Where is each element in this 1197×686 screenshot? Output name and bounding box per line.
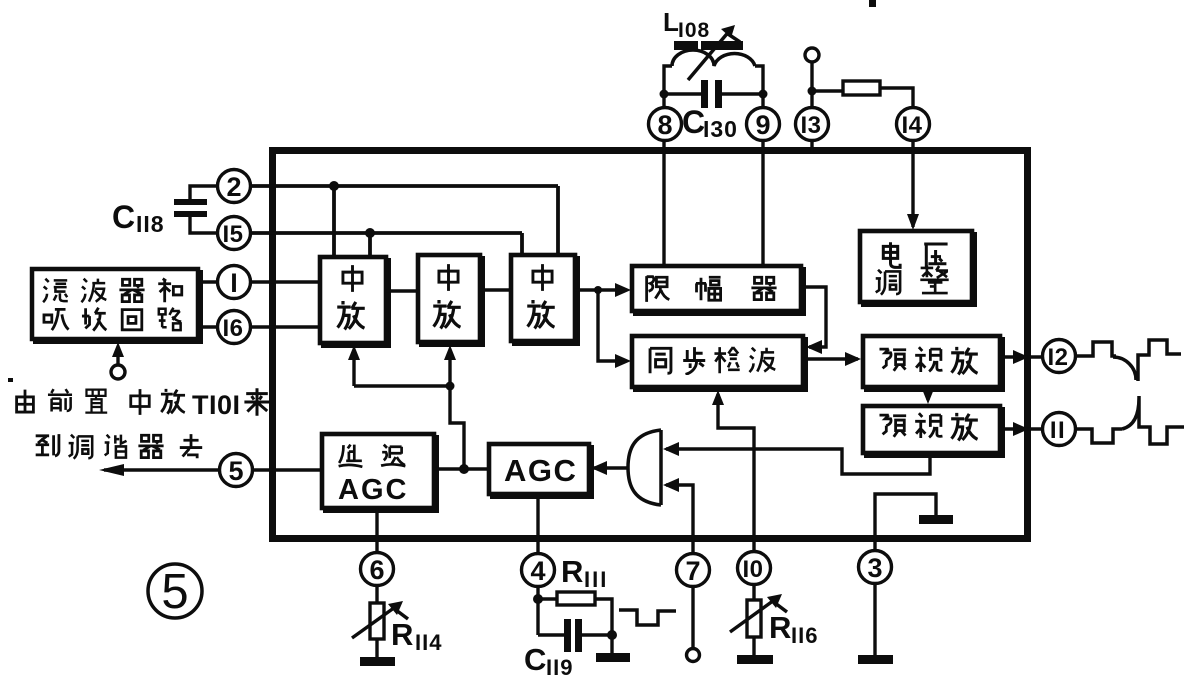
svg-text:C: C (524, 642, 546, 677)
ground below C119 net (596, 653, 630, 662)
block: IF amp 3 (中放) (514, 258, 578, 344)
svg-text:8: 8 (657, 110, 672, 140)
ground below R116 (737, 655, 773, 664)
svg-text:AGC: AGC (338, 474, 408, 506)
wire pin2 bus (250, 186, 558, 257)
pin 15 terminal circle (218, 217, 251, 250)
wire amp2 to amp3 (480, 288, 511, 291)
svg-text:TI0I: TI0I (192, 390, 241, 420)
wire pin 6 to R114 (375, 586, 378, 657)
block: IF amp 2 (中放) (421, 258, 483, 345)
svg-text:II: II (1050, 417, 1066, 444)
pin 4 terminal circle (522, 554, 555, 587)
gate (keyer) shape (628, 430, 661, 505)
svg-text:6: 6 (369, 555, 384, 585)
pin 6 terminal circle (361, 553, 394, 586)
svg-text:9: 9 (755, 110, 770, 140)
resistor R111 body (557, 592, 595, 605)
svg-text:R: R (561, 554, 583, 589)
block: voltage regulator (电压调整) (863, 234, 975, 305)
tank circuit L108/C130 above pins 8,9 (664, 66, 763, 108)
pin 9 terminal circle (747, 108, 780, 141)
svg-text:R: R (391, 617, 413, 652)
wire pin13 stub (810, 140, 813, 152)
resistor between pin 13 and pin 14 (843, 81, 880, 95)
wire pin5 line (104, 468, 322, 471)
svg-text:I4: I4 (901, 112, 922, 139)
pin 12 terminal circle (1043, 340, 1076, 373)
junction node pin 4 net (533, 594, 543, 604)
svg-text:3: 3 (867, 553, 882, 583)
block: IF amp 1 (中放) (323, 260, 389, 346)
adjust arrow through L108 (688, 29, 731, 80)
wire delayed AGC to AGC (434, 467, 489, 470)
wire video amp A to pin12 (1000, 355, 1043, 358)
svg-text:AGC: AGC (504, 453, 577, 488)
node on pin15 bus (365, 228, 375, 238)
pin 8 terminal circle (649, 108, 682, 141)
pin 13 external wire and node (812, 62, 913, 108)
svg-text:I3: I3 (800, 112, 821, 139)
svg-text:III: III (584, 567, 608, 592)
svg-text:2: 2 (226, 172, 241, 202)
pin circles (218, 108, 1076, 587)
wire pin1 (200, 280, 321, 283)
arrow left on pin5 line (99, 464, 124, 476)
junction node at pin 13 (808, 87, 817, 96)
junction node on delayed AGC output (459, 464, 469, 474)
wire pin 3 to ground (873, 584, 876, 655)
block: sync detector (同步检波) (635, 339, 806, 390)
figure number circle 5 (148, 564, 202, 618)
block: filter & absorption (滤波器和吸收回路) (35, 272, 201, 342)
text 由前置中放T101来 (17, 390, 34, 412)
wire gate to AGC (594, 466, 628, 469)
capacitor C119 plates (564, 619, 571, 652)
svg-text:C: C (682, 104, 705, 140)
AGC feedback to amps (354, 352, 464, 469)
svg-text:I08: I08 (678, 19, 710, 42)
junction node pin 9 tank (759, 90, 768, 99)
svg-text:L: L (663, 7, 679, 37)
wire pin 3 internal to ground symbol (875, 494, 936, 553)
block: pre-video amp A (预视放) (866, 339, 1003, 390)
svg-text:5: 5 (161, 565, 188, 619)
block: pre-video amp B (预视放) (866, 409, 1003, 456)
wire gate top input from video amp B (666, 449, 930, 474)
resistor R114 (adjustable) body (370, 603, 384, 639)
pin 1 terminal circle (218, 266, 251, 299)
svg-text:I6: I6 (222, 315, 243, 342)
text 到调谐器去 (36, 434, 59, 456)
wire pin 10 to R116 (752, 585, 755, 655)
wire video amp B to pin11 (1000, 427, 1043, 430)
wire video amp A to B (926, 387, 929, 400)
svg-text:5: 5 (228, 456, 243, 486)
wire pin 4 to R111/C119 network (538, 586, 612, 653)
pin 5 terminal circle (220, 454, 253, 487)
svg-text:I0: I0 (742, 556, 763, 583)
adjust arrow of R114 (352, 605, 398, 638)
pin 7 terminal circle (677, 554, 710, 587)
block: AGC (492, 447, 592, 497)
wire pin16 (200, 325, 321, 328)
AGC keying pulse waveform near pin 4 (619, 610, 676, 625)
wire delayed AGC to pin6 (375, 508, 378, 552)
svg-text:I30: I30 (703, 116, 738, 142)
L108 core bar left (674, 41, 698, 50)
svg-text:I5: I5 (222, 221, 243, 248)
IC outline box (273, 151, 1028, 539)
wire pin14 to regulator (911, 140, 914, 227)
svg-text:II4: II4 (415, 630, 442, 655)
ground below pin 3 (858, 655, 893, 664)
capacitor C118 wiring (190, 186, 219, 233)
node on pin2 bus (329, 181, 339, 191)
svg-text:7: 7 (685, 556, 700, 586)
wire gate bottom input from pin7 (666, 485, 693, 553)
svg-text:I: I (230, 268, 238, 298)
L108 core bar right (701, 41, 743, 50)
pin 2 terminal circle (218, 170, 251, 203)
pin 13 terminal circle (796, 108, 829, 141)
pin 10 terminal circle (738, 552, 771, 585)
svg-text:C: C (112, 199, 135, 235)
internal ground symbol (919, 515, 953, 524)
junction node at amp3 output (594, 286, 602, 294)
block: delayed AGC (延迟AGC) (325, 437, 437, 511)
svg-text:II6: II6 (791, 623, 818, 648)
stray scan dots (8, 378, 13, 382)
wire pin10 to sync det bottom (718, 394, 754, 551)
wire pin 7 to open terminal (691, 587, 694, 648)
wire pin8 into limiter (662, 140, 665, 266)
open terminal above pin 13 (805, 48, 819, 62)
pin 3 terminal circle (859, 551, 892, 584)
wire pin15 bus (250, 233, 522, 257)
adjust arrow of R116 (730, 598, 777, 632)
capacitor C118 plates (174, 199, 207, 205)
junction node pin 8 tank (660, 90, 669, 99)
junction node right of C119 (607, 630, 617, 640)
wire amp1 to amp2 (386, 289, 418, 292)
waveform at pin11 (1076, 396, 1184, 444)
inductor L108 coil (672, 50, 755, 66)
svg-text:R: R (769, 610, 791, 645)
resistor R116 (adjustable) body (747, 600, 761, 637)
pin 16 terminal circle (218, 311, 251, 344)
wire AGC to pin4 (536, 494, 539, 553)
wire sync det output to video amp A (803, 357, 858, 360)
wire limiter feedback to sync detector (801, 287, 826, 347)
wire amp3 output to limiter and sync det (575, 290, 618, 361)
open terminal below pin 7 (687, 649, 700, 662)
block: limiter (限幅器) (635, 269, 804, 314)
svg-text:4: 4 (530, 556, 545, 586)
capacitor C130 (664, 92, 763, 95)
pin 14 terminal circle (897, 108, 930, 141)
ground below R114 (360, 657, 395, 666)
wire pin9 into limiter (761, 140, 764, 266)
junction node on AGC feedback (446, 382, 455, 391)
pin 11 terminal circle (1043, 413, 1076, 446)
svg-text:II8: II8 (136, 211, 165, 237)
waveform at pin12 (1076, 340, 1181, 381)
filter box input terminal (116, 348, 119, 365)
svg-text:I2: I2 (1047, 344, 1068, 371)
capacitor C130 plates (701, 80, 708, 108)
svg-text:II9: II9 (546, 655, 573, 680)
